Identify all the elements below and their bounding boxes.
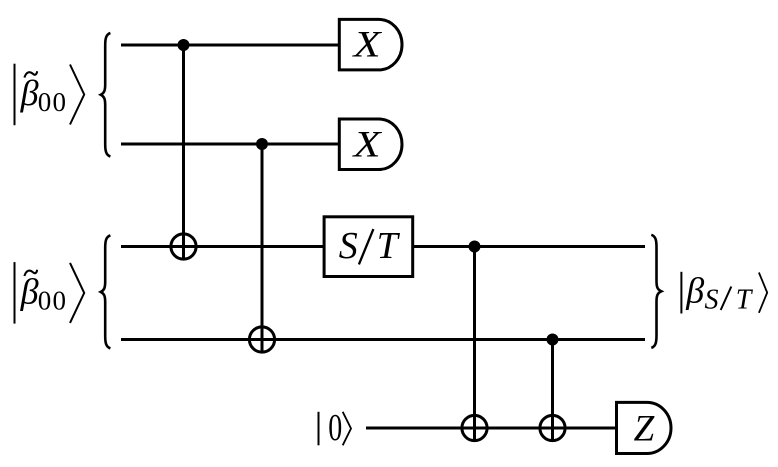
svg-text:X: X xyxy=(351,25,382,66)
svg-text:00: 00 xyxy=(38,286,67,316)
svg-text:T: T xyxy=(377,225,401,267)
svg-text:S: S xyxy=(339,225,358,267)
svg-text:β: β xyxy=(20,271,39,311)
svg-text:S: S xyxy=(705,284,719,315)
svg-text:β: β xyxy=(20,73,39,113)
svg-text:0: 0 xyxy=(328,407,342,449)
svg-text:X: X xyxy=(351,124,382,165)
svg-text:β: β xyxy=(685,271,704,311)
svg-text:00: 00 xyxy=(38,87,67,117)
svg-text:T: T xyxy=(736,284,754,315)
svg-text:Z: Z xyxy=(634,409,655,450)
